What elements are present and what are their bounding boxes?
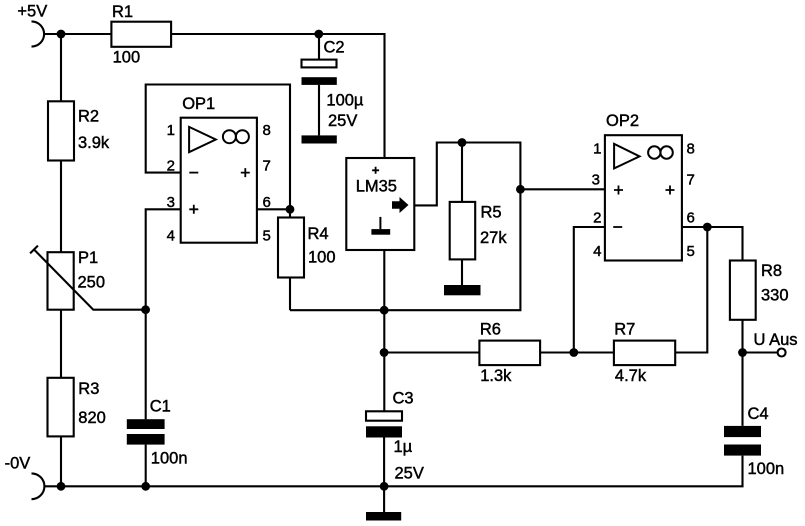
svg-text:100n: 100n [748,460,785,478]
svg-text:R4: R4 [308,225,329,243]
svg-text:25V: 25V [328,112,357,130]
svg-text:2: 2 [593,210,601,227]
svg-text:1: 1 [593,141,601,158]
svg-text:27k: 27k [480,229,507,247]
svg-text:P1: P1 [78,249,98,267]
svg-text:250: 250 [78,274,106,292]
svg-text:100: 100 [113,49,141,67]
svg-text:8: 8 [687,141,695,158]
svg-text:R8: R8 [761,262,782,280]
svg-text:C4: C4 [748,405,769,423]
svg-text:100µ: 100µ [326,92,364,110]
svg-text:7: 7 [263,158,271,175]
svg-text:U Aus: U Aus [754,331,798,349]
svg-text:4: 4 [593,243,601,260]
svg-text:R3: R3 [78,380,99,398]
svg-text:R6: R6 [480,321,501,339]
svg-text:3.9k: 3.9k [78,134,110,152]
svg-text:6: 6 [687,210,695,227]
svg-text:OP2: OP2 [606,112,639,130]
svg-text:4: 4 [167,228,175,245]
svg-text:100: 100 [308,249,336,267]
svg-text:1.3k: 1.3k [480,367,512,385]
svg-text:R1: R1 [112,3,133,21]
svg-text:820: 820 [78,409,106,427]
svg-text:4.7k: 4.7k [615,367,647,385]
svg-text:3: 3 [167,194,175,211]
svg-text:5: 5 [263,228,271,245]
svg-text:R7: R7 [614,321,635,339]
svg-text:5: 5 [687,243,695,260]
svg-text:330: 330 [761,287,789,305]
svg-text:R2: R2 [78,108,99,126]
svg-text:3: 3 [592,172,600,189]
svg-text:+5V: +5V [17,3,47,21]
svg-text:100n: 100n [151,450,188,468]
svg-text:6: 6 [263,194,271,211]
svg-text:2: 2 [167,158,175,175]
svg-text:1µ: 1µ [394,438,413,456]
svg-text:7: 7 [687,172,695,189]
svg-text:OP1: OP1 [182,95,215,113]
svg-text:R5: R5 [481,204,502,222]
svg-text:8: 8 [263,122,271,139]
svg-text:-0V: -0V [5,455,31,473]
svg-text:1: 1 [167,122,175,139]
svg-text:C1: C1 [150,398,171,416]
svg-text:LM35: LM35 [356,178,397,196]
svg-text:C2: C2 [324,39,345,57]
svg-text:25V: 25V [395,465,424,483]
svg-text:C3: C3 [393,390,414,408]
